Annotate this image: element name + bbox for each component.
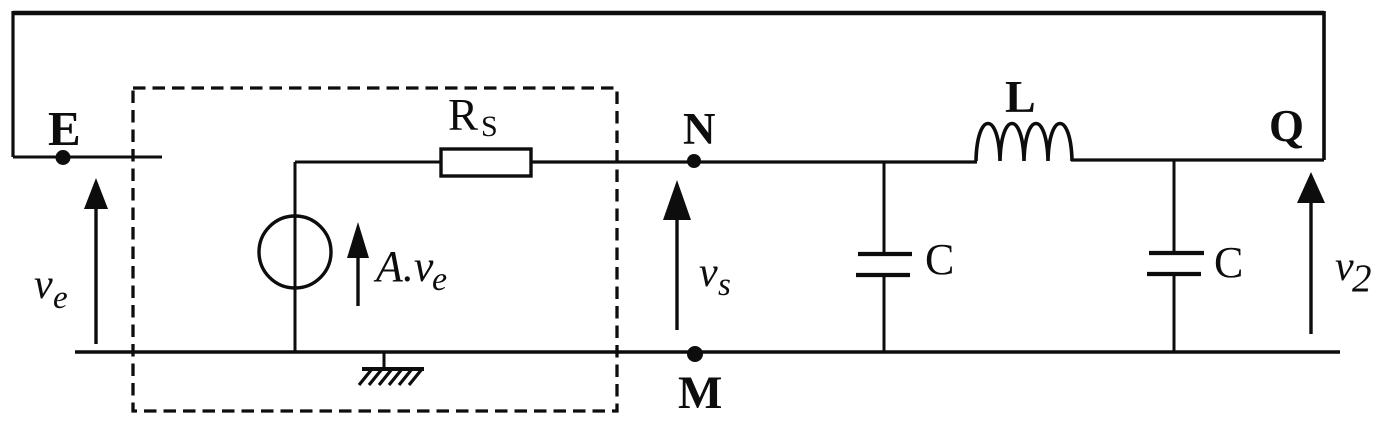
svg-text:L: L (1005, 71, 1036, 122)
svg-text:s: s (718, 267, 731, 303)
source U1 (controlled voltage source) (259, 216, 331, 288)
wire bottom rail (75, 350, 1340, 354)
capacitor C1 wire top (883, 162, 886, 253)
wire main top rail (resistor to inductor) (531, 160, 977, 163)
wire source vertical branch (294, 162, 297, 352)
svg-text:A.v: A.v (373, 242, 434, 291)
wire top feedback rail (13, 11, 1324, 16)
svg-text:E: E (48, 101, 81, 156)
wire inductor to Q (1071, 158, 1324, 161)
svg-text:M: M (678, 367, 722, 419)
capacitor C1 wire bottom (883, 276, 886, 352)
svg-text:v: v (34, 262, 53, 308)
resistor RS (441, 149, 531, 176)
arrow ve (94, 209, 97, 344)
svg-text:C: C (925, 235, 954, 284)
svg-text:Q: Q (1269, 101, 1304, 151)
svg-text:e: e (53, 280, 68, 316)
inductor L (976, 124, 1072, 162)
ground (383, 352, 386, 369)
capacitor C2 wire bottom (1173, 275, 1176, 351)
wire source to resistor (295, 161, 441, 164)
arrow A.ve (356, 252, 359, 306)
svg-text:2: 2 (1352, 257, 1372, 300)
svg-text:C: C (1214, 238, 1243, 287)
svg-text:R: R (448, 90, 478, 140)
svg-text:e: e (432, 261, 447, 298)
svg-text:N: N (683, 104, 716, 154)
wire right vertical (Q to top rail) (1322, 11, 1326, 160)
arrow vs (675, 215, 678, 330)
node N (687, 154, 701, 168)
node M (687, 346, 703, 362)
capacitor C2 plates (1149, 251, 1204, 255)
node E (56, 150, 71, 165)
arrow v2 (1309, 200, 1312, 334)
dashed amplifier box (133, 88, 617, 411)
capacitor C1 plates (858, 252, 912, 256)
wire left vertical (E to top rail) (11, 11, 14, 157)
svg-text:v: v (699, 250, 718, 296)
svg-text:S: S (481, 110, 498, 143)
capacitor C2 wire top (1173, 160, 1176, 252)
wire E input stub (13, 156, 162, 159)
